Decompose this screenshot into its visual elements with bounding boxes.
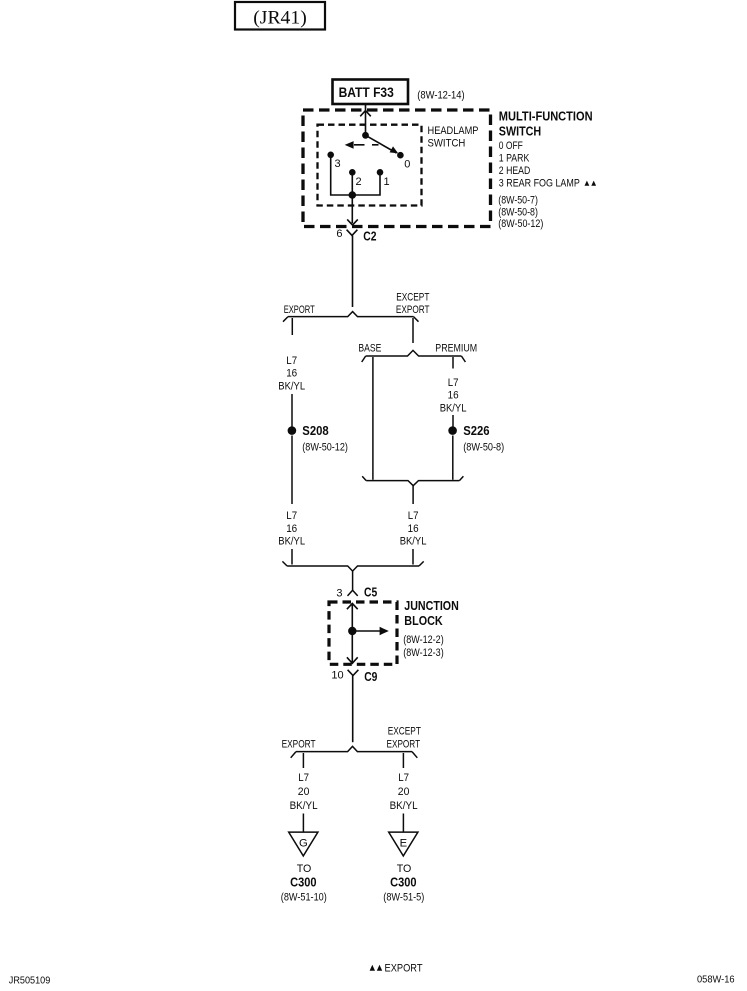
svg-text:16: 16 — [286, 523, 297, 535]
svg-text:S226: S226 — [463, 424, 489, 438]
svg-text:(8W-50-7): (8W-50-7) — [498, 194, 538, 206]
svg-text:PREMIUM: PREMIUM — [435, 343, 477, 355]
svg-text:EXCEPT: EXCEPT — [388, 726, 421, 738]
svg-text:EXPORT: EXPORT — [387, 739, 421, 751]
svg-text:16: 16 — [408, 523, 419, 535]
svg-text:BK/YL: BK/YL — [278, 536, 305, 548]
svg-text:(8W-12-14): (8W-12-14) — [417, 89, 464, 101]
svg-text:BATT F33: BATT F33 — [339, 84, 394, 100]
svg-text:L7: L7 — [298, 772, 309, 784]
svg-text:(8W-12-2): (8W-12-2) — [403, 634, 443, 646]
svg-text:BK/YL: BK/YL — [390, 800, 418, 812]
svg-text:0: 0 — [404, 158, 410, 170]
svg-text:L7: L7 — [408, 510, 419, 522]
svg-text:16: 16 — [286, 368, 297, 380]
svg-text:(JR41): (JR41) — [253, 8, 307, 29]
svg-text:C9: C9 — [364, 670, 377, 684]
svg-text:HEADLAMP: HEADLAMP — [428, 125, 479, 137]
svg-text:EXPORT: EXPORT — [284, 304, 315, 316]
svg-text:3: 3 — [336, 588, 342, 600]
svg-text:058W-16: 058W-16 — [697, 974, 735, 986]
svg-text:(8W-12-3): (8W-12-3) — [403, 647, 443, 659]
svg-text:L7: L7 — [286, 510, 297, 522]
svg-text:SWITCH: SWITCH — [499, 124, 541, 138]
svg-text:0 OFF: 0 OFF — [499, 140, 523, 152]
svg-text:EXPORT: EXPORT — [385, 963, 423, 975]
svg-text:BK/YL: BK/YL — [278, 381, 305, 393]
svg-text:EXPORT: EXPORT — [282, 739, 316, 751]
svg-text:20: 20 — [298, 786, 310, 798]
svg-text:BK/YL: BK/YL — [400, 536, 427, 548]
svg-text:1 PARK: 1 PARK — [499, 153, 530, 165]
svg-text:(8W-50-12): (8W-50-12) — [302, 441, 348, 453]
svg-text:G: G — [299, 838, 308, 850]
svg-text:BLOCK: BLOCK — [404, 614, 442, 628]
svg-text:1: 1 — [384, 176, 390, 188]
svg-text:C300: C300 — [390, 875, 416, 889]
svg-text:BASE: BASE — [358, 343, 381, 355]
svg-text:JUNCTION: JUNCTION — [404, 599, 459, 613]
svg-text:(8W-50-8): (8W-50-8) — [498, 207, 538, 219]
svg-text:6: 6 — [336, 228, 342, 240]
svg-text:C2: C2 — [363, 230, 376, 244]
svg-text:EXPORT: EXPORT — [396, 304, 430, 316]
svg-text:(8W-50-12): (8W-50-12) — [498, 218, 543, 230]
svg-text:2: 2 — [356, 176, 362, 188]
svg-text:BK/YL: BK/YL — [440, 403, 467, 415]
svg-text:(8W-51-5): (8W-51-5) — [383, 892, 424, 904]
svg-text:L7: L7 — [448, 377, 459, 389]
svg-text:C300: C300 — [290, 875, 316, 889]
svg-text:3: 3 — [335, 158, 341, 170]
svg-text:L7: L7 — [286, 355, 297, 367]
svg-text:(8W-51-10): (8W-51-10) — [281, 892, 327, 904]
svg-text:TO: TO — [397, 863, 412, 875]
svg-text:L7: L7 — [398, 772, 409, 784]
svg-text:E: E — [400, 838, 407, 850]
svg-text:BK/YL: BK/YL — [290, 800, 318, 812]
svg-text:MULTI-FUNCTION: MULTI-FUNCTION — [499, 109, 593, 123]
svg-text:16: 16 — [448, 390, 459, 402]
svg-text:20: 20 — [398, 786, 410, 798]
svg-text:10: 10 — [331, 670, 343, 682]
svg-text:EXCEPT: EXCEPT — [396, 291, 429, 303]
svg-text:3 REAR FOG LAMP: 3 REAR FOG LAMP — [499, 177, 580, 189]
svg-text:TO: TO — [297, 863, 312, 875]
svg-text:JR505109: JR505109 — [9, 974, 51, 986]
svg-text:S208: S208 — [302, 424, 328, 438]
svg-text:(8W-50-8): (8W-50-8) — [463, 441, 504, 453]
svg-text:2 HEAD: 2 HEAD — [499, 165, 531, 177]
svg-text:SWITCH: SWITCH — [428, 137, 466, 149]
svg-text:C5: C5 — [364, 586, 377, 600]
